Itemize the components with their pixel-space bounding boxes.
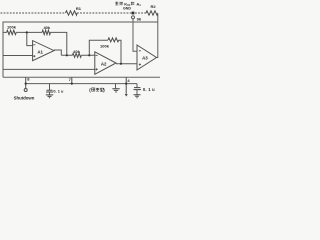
junction node input bbox=[26, 31, 28, 33]
op-amp A1 bbox=[33, 41, 54, 61]
label short note glyph 3 bbox=[131, 2, 134, 6]
plus marker A3 bbox=[139, 63, 141, 65]
svg-text:40k: 40k bbox=[73, 49, 80, 54]
IC box outline (top and left and bottom) bbox=[3, 22, 158, 77]
pin 4 stub bbox=[125, 77, 127, 83]
capacitor C1 lead lower bbox=[49, 92, 51, 95]
svg-text:R1: R1 bbox=[76, 6, 82, 11]
svg-text:A1: A1 bbox=[37, 49, 43, 54]
wire feedback corner down to output row bbox=[50, 32, 66, 55]
wire supply stem bbox=[125, 84, 127, 94]
node 96 terminal circle bbox=[132, 16, 135, 19]
resistor 100k feedback A2 bbox=[108, 38, 119, 42]
op-amp A2 bbox=[95, 52, 116, 75]
junction dot pin8 bbox=[25, 83, 27, 85]
svg-text:100k: 100k bbox=[7, 25, 17, 30]
wire to node bbox=[16, 31, 42, 33]
capacitor C2 lead bbox=[136, 84, 138, 88]
svg-text:R2: R2 bbox=[150, 4, 156, 9]
wire dashed right bbox=[135, 12, 146, 14]
junction dot pin7 bbox=[71, 83, 73, 85]
svg-text:A1: A1 bbox=[136, 1, 141, 7]
wire R2 down right edge to A3 output bbox=[157, 14, 158, 58]
plus marker A2 bbox=[96, 68, 98, 70]
minus marker A2 bbox=[96, 54, 98, 56]
wire A1 inverting input bbox=[27, 32, 33, 45]
ground under C2 bbox=[134, 95, 141, 98]
svg-text:A2: A2 bbox=[101, 62, 107, 67]
svg-text:0. 1 u: 0. 1 u bbox=[53, 88, 64, 93]
label single supply glyph 2 bbox=[96, 88, 99, 92]
label single supply glyph 1 bbox=[92, 88, 95, 91]
wire lower bus below box bbox=[26, 83, 137, 85]
pin 7 stub bbox=[71, 77, 73, 83]
junction dot pin4 bbox=[125, 83, 127, 85]
label short note glyph 1 bbox=[115, 2, 118, 6]
label short note glyph 2 bbox=[120, 2, 123, 6]
wire A2 non-inverting input from left edge bbox=[3, 68, 95, 70]
svg-text:40k: 40k bbox=[43, 25, 50, 30]
svg-text:96: 96 bbox=[137, 16, 142, 21]
minus marker A1 bbox=[33, 44, 35, 46]
plus marker A1 bbox=[33, 55, 35, 57]
capacitor C2 plates bbox=[134, 88, 142, 90]
wire A2 output to A3 bbox=[116, 63, 137, 65]
node 96 vertical wire to A3 inverting input bbox=[133, 19, 137, 51]
ground left of supply bbox=[115, 84, 117, 89]
op-amp A3 bbox=[137, 45, 157, 70]
terminal circle shutdown bbox=[24, 89, 27, 92]
supply arrow terminal bbox=[125, 94, 128, 97]
pin 8 stub and shutdown lead bbox=[25, 77, 27, 88]
capacitor C2 lead lower bbox=[136, 90, 138, 95]
wire A1 output step bbox=[54, 50, 61, 55]
svg-text:A3: A3 bbox=[142, 55, 148, 60]
junction node A1 output bbox=[66, 54, 68, 56]
wire dashed mid bbox=[77, 12, 132, 14]
svg-text:GND: GND bbox=[123, 7, 131, 11]
svg-text:Shutdown: Shutdown bbox=[14, 95, 35, 100]
junction node A2 output bbox=[120, 63, 122, 65]
node K on dashed line bbox=[132, 12, 135, 15]
svg-text:100k: 100k bbox=[100, 43, 110, 48]
capacitor C1 plates bbox=[46, 90, 53, 92]
resistor 100k input bbox=[7, 30, 17, 34]
wire dashed feedback line bbox=[1, 12, 66, 14]
resistor R1 bbox=[66, 11, 78, 15]
wire input row bbox=[3, 31, 7, 33]
resistor 40k feedback A1 bbox=[42, 30, 50, 34]
resistor R2 bbox=[146, 11, 158, 15]
wire A1 non-inverting input bbox=[3, 55, 33, 57]
minus marker A3 bbox=[139, 50, 141, 52]
capacitor C1 lead bbox=[49, 84, 51, 90]
ground under C1 bbox=[46, 95, 53, 98]
label single supply glyph 3 bbox=[100, 88, 103, 91]
wire A2 feedback down to output bbox=[119, 40, 121, 64]
svg-text:0. 1 u: 0. 1 u bbox=[143, 87, 155, 92]
wire output row to A2 bbox=[61, 54, 95, 56]
junction node A2 inverting bbox=[88, 54, 90, 56]
wire A2 feedback up bbox=[89, 40, 108, 55]
resistor 40k series bbox=[72, 53, 81, 57]
